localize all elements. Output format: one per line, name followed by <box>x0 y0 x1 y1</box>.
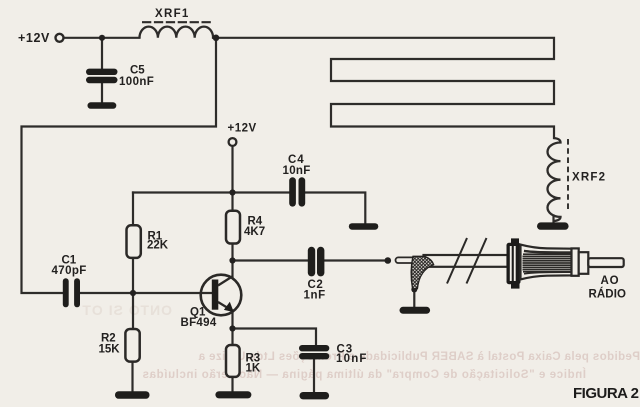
svg-text:10nF: 10nF <box>283 165 311 177</box>
svg-text:Índice e "Solicitação de Compr: Índice e "Solicitação de Compra" da últi… <box>142 368 586 381</box>
svg-text:10nF: 10nF <box>336 353 368 365</box>
svg-text:470pF: 470pF <box>52 265 87 277</box>
svg-text:+12V: +12V <box>18 31 50 45</box>
svg-text:XRF1: XRF1 <box>155 8 190 20</box>
svg-text:RÁDIO: RÁDIO <box>589 288 627 301</box>
svg-text:100nF: 100nF <box>119 76 154 88</box>
svg-text:BF494: BF494 <box>181 317 217 329</box>
svg-text:FIGURA 2: FIGURA 2 <box>573 385 639 402</box>
svg-text:Pedidos pela Caixa Postal à SA: Pedidos pela Caixa Postal à SABER Public… <box>198 351 640 363</box>
svg-text:+12V: +12V <box>228 123 257 135</box>
svg-text:1K: 1K <box>246 363 261 375</box>
svg-text:15K: 15K <box>99 344 121 356</box>
svg-text:AO: AO <box>601 275 620 287</box>
svg-text:4K7: 4K7 <box>244 226 265 238</box>
svg-text:1nF: 1nF <box>304 290 326 302</box>
svg-text:C5: C5 <box>130 65 145 77</box>
svg-text:22K: 22K <box>147 240 169 252</box>
svg-text:XRF2: XRF2 <box>572 172 606 184</box>
svg-text:ONTO SI OT: ONTO SI OT <box>81 302 172 318</box>
